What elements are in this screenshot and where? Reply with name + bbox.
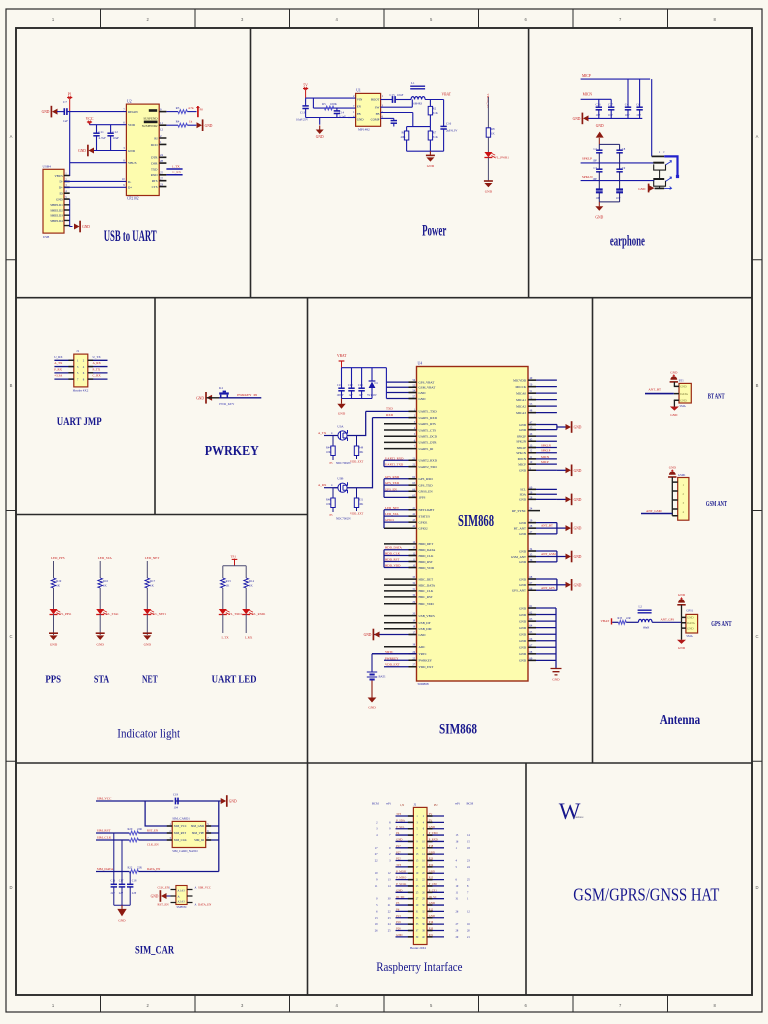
svg-text:GND: GND xyxy=(574,527,582,531)
svg-text:SW: SW xyxy=(375,106,380,110)
svg-text:B: B xyxy=(756,383,759,388)
svg-text:22P: 22P xyxy=(119,892,124,895)
svg-text:SMA: SMA xyxy=(686,634,693,638)
svg-text:USB4: USB4 xyxy=(43,164,52,168)
svg-text:GND: GND xyxy=(196,396,204,400)
svg-text:UART1_DCD: UART1_DCD xyxy=(419,435,438,439)
svg-text:3V3: 3V3 xyxy=(396,864,401,867)
svg-text:R19: R19 xyxy=(56,579,62,583)
SIM card socket SIM_CARD1 xyxy=(172,821,206,847)
svg-text:ANT_GPS: ANT_GPS xyxy=(541,586,555,590)
svg-text:10nF: 10nF xyxy=(397,93,404,97)
svg-text:UART JMP: UART JMP xyxy=(57,416,102,428)
svg-text:MP1482: MP1482 xyxy=(358,128,370,132)
svg-text:C9: C9 xyxy=(622,166,626,170)
svg-text:10uF: 10uF xyxy=(113,136,120,140)
svg-text:LED_STA: LED_STA xyxy=(385,512,399,516)
svg-text:RST_EN: RST_EN xyxy=(158,903,170,907)
svg-text:MICA2: MICA2 xyxy=(516,404,526,408)
svg-text:SIM_GND: SIM_GND xyxy=(191,824,205,828)
svg-text:TXD: TXD xyxy=(151,167,158,171)
svg-text:VIN: VIN xyxy=(357,97,363,101)
svg-text:ANT_BT: ANT_BT xyxy=(648,388,661,392)
svg-text:GND: GND xyxy=(229,800,237,804)
connector BT ANT xyxy=(679,383,691,403)
svg-text:MICA3: MICA3 xyxy=(516,411,526,415)
svg-text:6M4R3: 6M4R3 xyxy=(413,101,422,105)
IC U4 SIM868 body xyxy=(417,367,529,682)
svg-text:HDD_DATA: HDD_DATA xyxy=(385,546,402,550)
svg-text:MICN: MICN xyxy=(583,93,593,97)
svg-text:VL_RXD1: VL_RXD1 xyxy=(252,612,266,616)
svg-text:GPIO2: GPIO2 xyxy=(419,527,428,531)
resistor R51 pullup xyxy=(356,488,358,498)
ground LED_PPS chain xyxy=(49,632,58,634)
svg-text:P1: P1 xyxy=(68,92,72,96)
svg-text:BAT1: BAT1 xyxy=(379,675,387,679)
svg-text:HDD_VDD: HDD_VDD xyxy=(385,564,401,568)
svg-text:5V: 5V xyxy=(303,83,308,87)
section divider v1 xyxy=(250,28,252,298)
svg-text:UART2_RXD: UART2_RXD xyxy=(419,459,438,463)
svg-text:GND: GND xyxy=(42,110,50,114)
svg-text:GND: GND xyxy=(118,919,126,923)
svg-text:P_TX: P_TX xyxy=(93,367,101,371)
svg-text:P_RX: P_RX xyxy=(54,367,62,371)
svg-text:SDA: SDA xyxy=(520,493,527,497)
svg-text:SPK1N: SPK1N xyxy=(516,451,526,455)
svg-text:GND: GND xyxy=(519,521,527,525)
svg-text:100K: 100K xyxy=(330,102,338,106)
sim caps gnd rail xyxy=(114,904,130,906)
svg-text:22R: 22R xyxy=(626,617,631,620)
svg-text:NET: NET xyxy=(142,674,158,685)
svg-text:VRTC: VRTC xyxy=(419,652,427,656)
svg-text:GND: GND xyxy=(573,117,581,121)
svg-text:LED_NET: LED_NET xyxy=(385,506,399,510)
svg-text:GND: GND xyxy=(429,826,435,829)
svg-text:GND: GND xyxy=(97,643,105,647)
svg-text:PU: PU xyxy=(434,804,438,807)
power pin right of R3 xyxy=(197,106,199,117)
wire VDD xyxy=(90,124,127,126)
svg-text:J2: J2 xyxy=(413,803,416,807)
svg-text:HDD_RST: HDD_RST xyxy=(419,560,433,564)
wire EN row xyxy=(312,98,314,108)
svg-text:wPi: wPi xyxy=(455,801,460,805)
svg-text:GPS_RXD: GPS_RXD xyxy=(419,477,434,481)
svg-text:SHIELD2: SHIELD2 xyxy=(50,208,63,212)
svg-text:P_SCLK: P_SCLK xyxy=(396,883,406,886)
capacitor C29 xyxy=(619,144,621,150)
svg-text:L1: L1 xyxy=(411,81,415,85)
wire mic to jack vertical xyxy=(651,79,653,156)
svg-text:10K: 10K xyxy=(359,503,364,506)
capacitor C17 22p xyxy=(121,840,123,884)
svg-text:GND: GND xyxy=(519,583,527,587)
connector GPS ANT xyxy=(686,614,698,633)
raspberry pin rows xyxy=(396,815,414,817)
svg-text:GND: GND xyxy=(519,633,527,637)
svg-text:VCC: VCC xyxy=(86,117,94,121)
wire BOOT to C15 xyxy=(381,99,393,101)
svg-text:Power: Power xyxy=(422,223,446,240)
svg-text:P21: P21 xyxy=(429,934,434,937)
svg-text:HDD_RST: HDD_RST xyxy=(385,558,399,562)
svg-text:1nF: 1nF xyxy=(359,394,364,397)
svg-text:C18: C18 xyxy=(132,880,137,883)
svg-text:HDD_CLK: HDD_CLK xyxy=(419,554,435,558)
svg-text:NDC7002N: NDC7002N xyxy=(336,517,351,521)
svg-text:UART1_RI: UART1_RI xyxy=(419,447,434,451)
wire LED_STA chain upper xyxy=(99,561,101,578)
svg-text:SPKLP: SPKLP xyxy=(582,157,592,161)
svg-text:SIM868: SIM868 xyxy=(439,722,477,738)
svg-text:BT ANT: BT ANT xyxy=(708,391,725,400)
svg-text:VDD_EXT: VDD_EXT xyxy=(419,665,434,669)
svg-text:GPIO1: GPIO1 xyxy=(419,520,428,524)
svg-text:C16: C16 xyxy=(111,880,116,883)
svg-text:J1: J1 xyxy=(76,349,79,353)
svg-text:U1: U1 xyxy=(356,89,361,93)
svg-text:U_TX: U_TX xyxy=(93,355,102,359)
svg-text:GND: GND xyxy=(574,469,582,473)
svg-text:R51: R51 xyxy=(359,499,364,502)
svg-text:U3A: U3A xyxy=(337,424,344,428)
resistor R16 xyxy=(98,578,103,588)
svg-text:UART2_RXD: UART2_RXD xyxy=(385,456,404,460)
svg-text:PWR_KEY: PWR_KEY xyxy=(219,402,235,406)
svg-text:GND: GND xyxy=(680,398,687,402)
svg-text:100uF: 100uF xyxy=(337,394,345,397)
svg-text:C2: C2 xyxy=(594,147,598,151)
GND symbol ladder bottom xyxy=(598,202,600,206)
svg-text:HDD_VDD: HDD_VDD xyxy=(419,566,435,570)
power pin P1 xyxy=(67,97,72,99)
svg-text:GND: GND xyxy=(595,216,603,220)
fb gnd rail xyxy=(407,150,444,152)
svg-text:GND: GND xyxy=(419,391,427,395)
svg-text:GPS_EN: GPS_EN xyxy=(385,487,397,491)
svg-text:ANT_BT: ANT_BT xyxy=(541,524,553,528)
svg-text:SIM_VPP: SIM_VPP xyxy=(192,831,205,835)
svg-text:10K: 10K xyxy=(359,451,364,454)
svg-text:I_RX: I_RX xyxy=(245,636,253,640)
wire to I_RX label xyxy=(245,614,247,633)
svg-text:GND: GND xyxy=(316,135,324,139)
GND triangle below GPS connector xyxy=(681,628,683,640)
battery BAT1 xyxy=(372,653,417,655)
J1 right wires xyxy=(88,360,108,379)
svg-text:FB: FB xyxy=(357,112,361,116)
svg-text:R8: R8 xyxy=(491,127,495,131)
svg-text:28: 28 xyxy=(160,159,164,163)
wire uart led top bar xyxy=(223,565,246,567)
svg-text:A: A xyxy=(756,134,759,139)
svg-text:5V: 5V xyxy=(429,813,432,816)
resistor R5 100K on EN xyxy=(324,106,333,110)
svg-text:GND: GND xyxy=(596,124,604,128)
svg-text:GND: GND xyxy=(429,870,435,873)
svg-text:MICCK: MICCK xyxy=(516,385,527,389)
svg-text:SIM868: SIM868 xyxy=(458,511,494,530)
svg-text:R2: R2 xyxy=(433,107,437,111)
svg-text:P13: P13 xyxy=(396,915,401,918)
LED VL_STA1 xyxy=(96,609,104,614)
jack top black bar xyxy=(652,155,665,157)
GND power port left of C7 xyxy=(52,109,58,115)
svg-text:A_TX: A_TX xyxy=(318,431,327,435)
svg-text:GND: GND xyxy=(368,706,376,710)
svg-text:GND: GND xyxy=(519,619,527,623)
GND arrow left usb group xyxy=(374,632,380,638)
svg-text:GND: GND xyxy=(574,498,582,502)
jack bottom bar xyxy=(655,187,665,189)
svg-text:NDC7002N: NDC7002N xyxy=(336,461,351,465)
svg-text:10P: 10P xyxy=(616,196,621,200)
svg-text:A:: A: xyxy=(178,896,181,899)
capacitor C24 mic xyxy=(627,79,629,107)
svg-text:GND: GND xyxy=(419,633,427,637)
svg-text:VBUS: VBUS xyxy=(55,174,64,178)
svg-text:PWRKEY: PWRKEY xyxy=(419,659,433,663)
svg-text:GND: GND xyxy=(519,659,527,663)
svg-text:HDC_DET: HDC_DET xyxy=(419,577,434,581)
svg-text:SIM_RST: SIM_RST xyxy=(174,831,187,835)
wire LED_NET chain upper xyxy=(146,561,148,578)
power pin 5V xyxy=(303,88,308,90)
svg-text:SIM_CAR: SIM_CAR xyxy=(135,943,174,957)
svg-text:R16: R16 xyxy=(103,579,109,583)
IC U1 MP1482 xyxy=(356,93,381,126)
svg-text:UART1_CTS: UART1_CTS xyxy=(419,428,437,432)
J1 left wires xyxy=(54,360,73,379)
gnd bank bus xyxy=(555,608,557,669)
svg-text:VL_PPS1: VL_PPS1 xyxy=(60,612,73,616)
svg-text:SUSPEND2: SUSPEND2 xyxy=(142,124,158,128)
wire battery to gnd xyxy=(371,681,373,698)
svg-text:R7: R7 xyxy=(433,131,437,135)
svg-text:TXD: TXD xyxy=(386,407,393,411)
svg-text:GND: GND xyxy=(429,915,435,918)
GND symbol fb xyxy=(429,151,431,155)
svg-text:P23: P23 xyxy=(429,858,434,861)
svg-text:GND: GND xyxy=(519,577,527,581)
svg-text:SIM_RST: SIM_RST xyxy=(97,828,112,832)
resistor R33 xyxy=(618,620,626,624)
wire sim vcc rail xyxy=(96,800,221,802)
capacitor C23 xyxy=(361,368,363,389)
capacitor C21 xyxy=(341,368,343,389)
ground IEC symbol gnd bank xyxy=(551,669,562,675)
svg-text:UART2_TXD: UART2_TXD xyxy=(385,463,404,467)
section divider h1 xyxy=(16,297,752,299)
capacitor C25 mic xyxy=(639,79,641,107)
svg-text:22P: 22P xyxy=(111,892,116,895)
svg-text:C12: C12 xyxy=(113,130,119,134)
svg-text:USB: USB xyxy=(43,235,49,239)
svg-text:DATA_EN: DATA_EN xyxy=(147,867,161,871)
svg-text:GND: GND xyxy=(519,549,527,553)
svg-text:VBAT: VBAT xyxy=(442,93,452,97)
led group bus xyxy=(383,510,385,528)
svg-text:GND: GND xyxy=(670,413,678,417)
svg-text:VDD: VDD xyxy=(128,123,136,127)
svg-text:GND: GND xyxy=(396,934,402,937)
wire ANT_BT xyxy=(645,393,674,395)
svg-text:R4: R4 xyxy=(176,120,180,124)
wire TXD route xyxy=(348,411,366,435)
svg-text:C26: C26 xyxy=(596,102,602,106)
svg-text:SIM_DATA: SIM_DATA xyxy=(97,867,114,871)
wire SPKLN xyxy=(581,180,655,182)
resistor R44 xyxy=(332,436,334,447)
svg-text:GND: GND xyxy=(519,626,527,630)
svg-text:MICP: MICP xyxy=(518,462,526,466)
wire sim clk xyxy=(96,839,129,841)
svg-text:GPIO1: GPIO1 xyxy=(385,518,394,522)
svg-text:P_MISO: P_MISO xyxy=(396,877,406,880)
svg-text:SPKLN: SPKLN xyxy=(582,175,593,179)
gsm pins join bus xyxy=(671,477,673,516)
wire RXD route xyxy=(348,418,373,488)
svg-text:R3: R3 xyxy=(176,106,180,110)
svg-text:ID_SC: ID_SC xyxy=(429,896,437,899)
capacitor C7 xyxy=(57,111,64,113)
IC U2 CP2102 xyxy=(126,104,159,195)
svg-text:GND: GND xyxy=(427,164,435,168)
svg-text:BT_ANT: BT_ANT xyxy=(514,526,526,530)
svg-text:GPS_TXD: GPS_TXD xyxy=(385,481,400,485)
svg-text:NETLIGHT: NETLIGHT xyxy=(419,508,435,512)
svg-text:SIM_IO: SIM_IO xyxy=(194,838,205,842)
svg-text:GPS_RXD: GPS_RXD xyxy=(385,475,400,479)
capacitor C30 xyxy=(598,163,600,169)
svg-text:DSR: DSR xyxy=(151,162,158,166)
section divider h2 xyxy=(16,514,308,516)
svg-text:B: B xyxy=(10,383,13,388)
GND arrow spk group xyxy=(557,469,566,471)
capacitor C13 input xyxy=(305,98,307,106)
wire REGIN xyxy=(67,111,127,113)
wire VIN xyxy=(306,97,356,99)
svg-text:A_RX: A_RX xyxy=(93,361,102,365)
svg-text:Antenna: Antenna xyxy=(660,712,701,727)
jack center stem xyxy=(659,170,661,188)
wire vbat to R33 xyxy=(612,621,618,623)
wire socket right bus xyxy=(218,801,220,872)
GND arrow sim vcc xyxy=(221,798,227,804)
wire VBUS vertical xyxy=(64,112,69,176)
GND arrow i2c xyxy=(557,498,566,500)
svg-text:22P: 22P xyxy=(132,892,137,895)
capacitor C11 xyxy=(96,125,98,134)
svg-text:P27: P27 xyxy=(396,851,401,854)
GND arrow esd xyxy=(161,893,167,899)
svg-text:GNSS_EN: GNSS_EN xyxy=(419,490,434,494)
svg-text:BOOT: BOOT xyxy=(371,97,380,101)
svg-text:C19: C19 xyxy=(173,793,179,797)
svg-text:earphone: earphone xyxy=(610,233,645,249)
GND triangle below BT connector xyxy=(673,400,675,406)
svg-text:VDD_EXT: VDD_EXT xyxy=(350,512,364,516)
wire gate Q1A xyxy=(324,435,338,437)
svg-text:HDD_DET: HDD_DET xyxy=(419,542,434,546)
svg-text:GND: GND xyxy=(50,643,58,647)
svg-text:10P: 10P xyxy=(636,113,641,117)
svg-text:SPK2N: SPK2N xyxy=(516,440,526,444)
svg-text:BCM: BCM xyxy=(467,801,474,805)
svg-text:SMF05C: SMF05C xyxy=(177,905,188,909)
wire TXD out xyxy=(166,168,182,170)
GPS antenna group join xyxy=(556,579,558,590)
svg-text:P_TXD: P_TXD xyxy=(429,832,438,835)
svg-text:1PPS: 1PPS xyxy=(419,496,426,500)
svg-text:U2: U2 xyxy=(127,99,132,103)
svg-text:10P: 10P xyxy=(593,160,598,163)
svg-text:Header 4X2: Header 4X2 xyxy=(73,388,89,392)
svg-text:C7: C7 xyxy=(63,100,67,104)
svg-text:R6: R6 xyxy=(402,131,406,135)
svg-text:5V1/2W: 5V1/2W xyxy=(367,394,377,397)
svg-text:D+: D+ xyxy=(59,186,63,190)
resistor R3 xyxy=(178,110,187,114)
wire LED_NET chain lower xyxy=(146,614,148,635)
GND arrow right of R4 xyxy=(197,122,203,128)
svg-text:P_RXD: P_RXD xyxy=(429,839,438,842)
svg-text:GND: GND xyxy=(519,469,527,473)
svg-text:C16: C16 xyxy=(446,122,452,126)
wire vcc drop to socket xyxy=(145,801,172,826)
svg-text:UART1_RXD: UART1_RXD xyxy=(419,416,438,420)
svg-text:SIM_VCC: SIM_VCC xyxy=(97,796,112,800)
svg-text:P_CE0: P_CE0 xyxy=(429,883,438,886)
svg-text:22R: 22R xyxy=(137,827,142,831)
svg-text:GND: GND xyxy=(519,646,527,650)
svg-text:D: D xyxy=(755,885,758,890)
svg-text:RXD: RXD xyxy=(151,173,158,177)
svg-text:C23: C23 xyxy=(358,384,363,387)
wire FB drop xyxy=(381,112,413,114)
svg-text:VBAT: VBAT xyxy=(337,354,347,358)
header J1 UART JMP xyxy=(74,354,88,387)
svg-text:ANT_GSM: ANT_GSM xyxy=(541,552,556,556)
capacitor C31 xyxy=(619,163,621,169)
ground LED_NET chain xyxy=(143,632,152,634)
svg-text:Indicator light: Indicator light xyxy=(117,725,180,740)
ruler ticks top xyxy=(101,9,668,28)
svg-text:GND: GND xyxy=(574,583,582,587)
wire pwrkey xyxy=(207,397,219,399)
capacitor C12 xyxy=(110,125,112,134)
svg-text:C13: C13 xyxy=(300,111,306,115)
wire MICP xyxy=(581,78,651,80)
section divider v3 xyxy=(154,298,156,515)
svg-text:R14: R14 xyxy=(249,579,255,583)
resistor R6 lower left xyxy=(406,127,408,131)
svg-text:D-: D- xyxy=(60,180,63,184)
svg-text:BCM: BCM xyxy=(372,801,379,805)
svg-text:4.7uF: 4.7uF xyxy=(99,136,107,140)
svg-text:FB: FB xyxy=(376,112,380,116)
LED VL_NET1 xyxy=(143,609,151,614)
svg-text:VL_PWR1: VL_PWR1 xyxy=(495,155,510,159)
svg-text:P24: P24 xyxy=(429,864,434,867)
svg-text:+3.3A: +3.3A xyxy=(54,374,63,378)
svg-text:GND: GND xyxy=(574,426,582,430)
svg-text:R44: R44 xyxy=(326,447,331,450)
GND dome above GPS connector xyxy=(678,599,685,602)
